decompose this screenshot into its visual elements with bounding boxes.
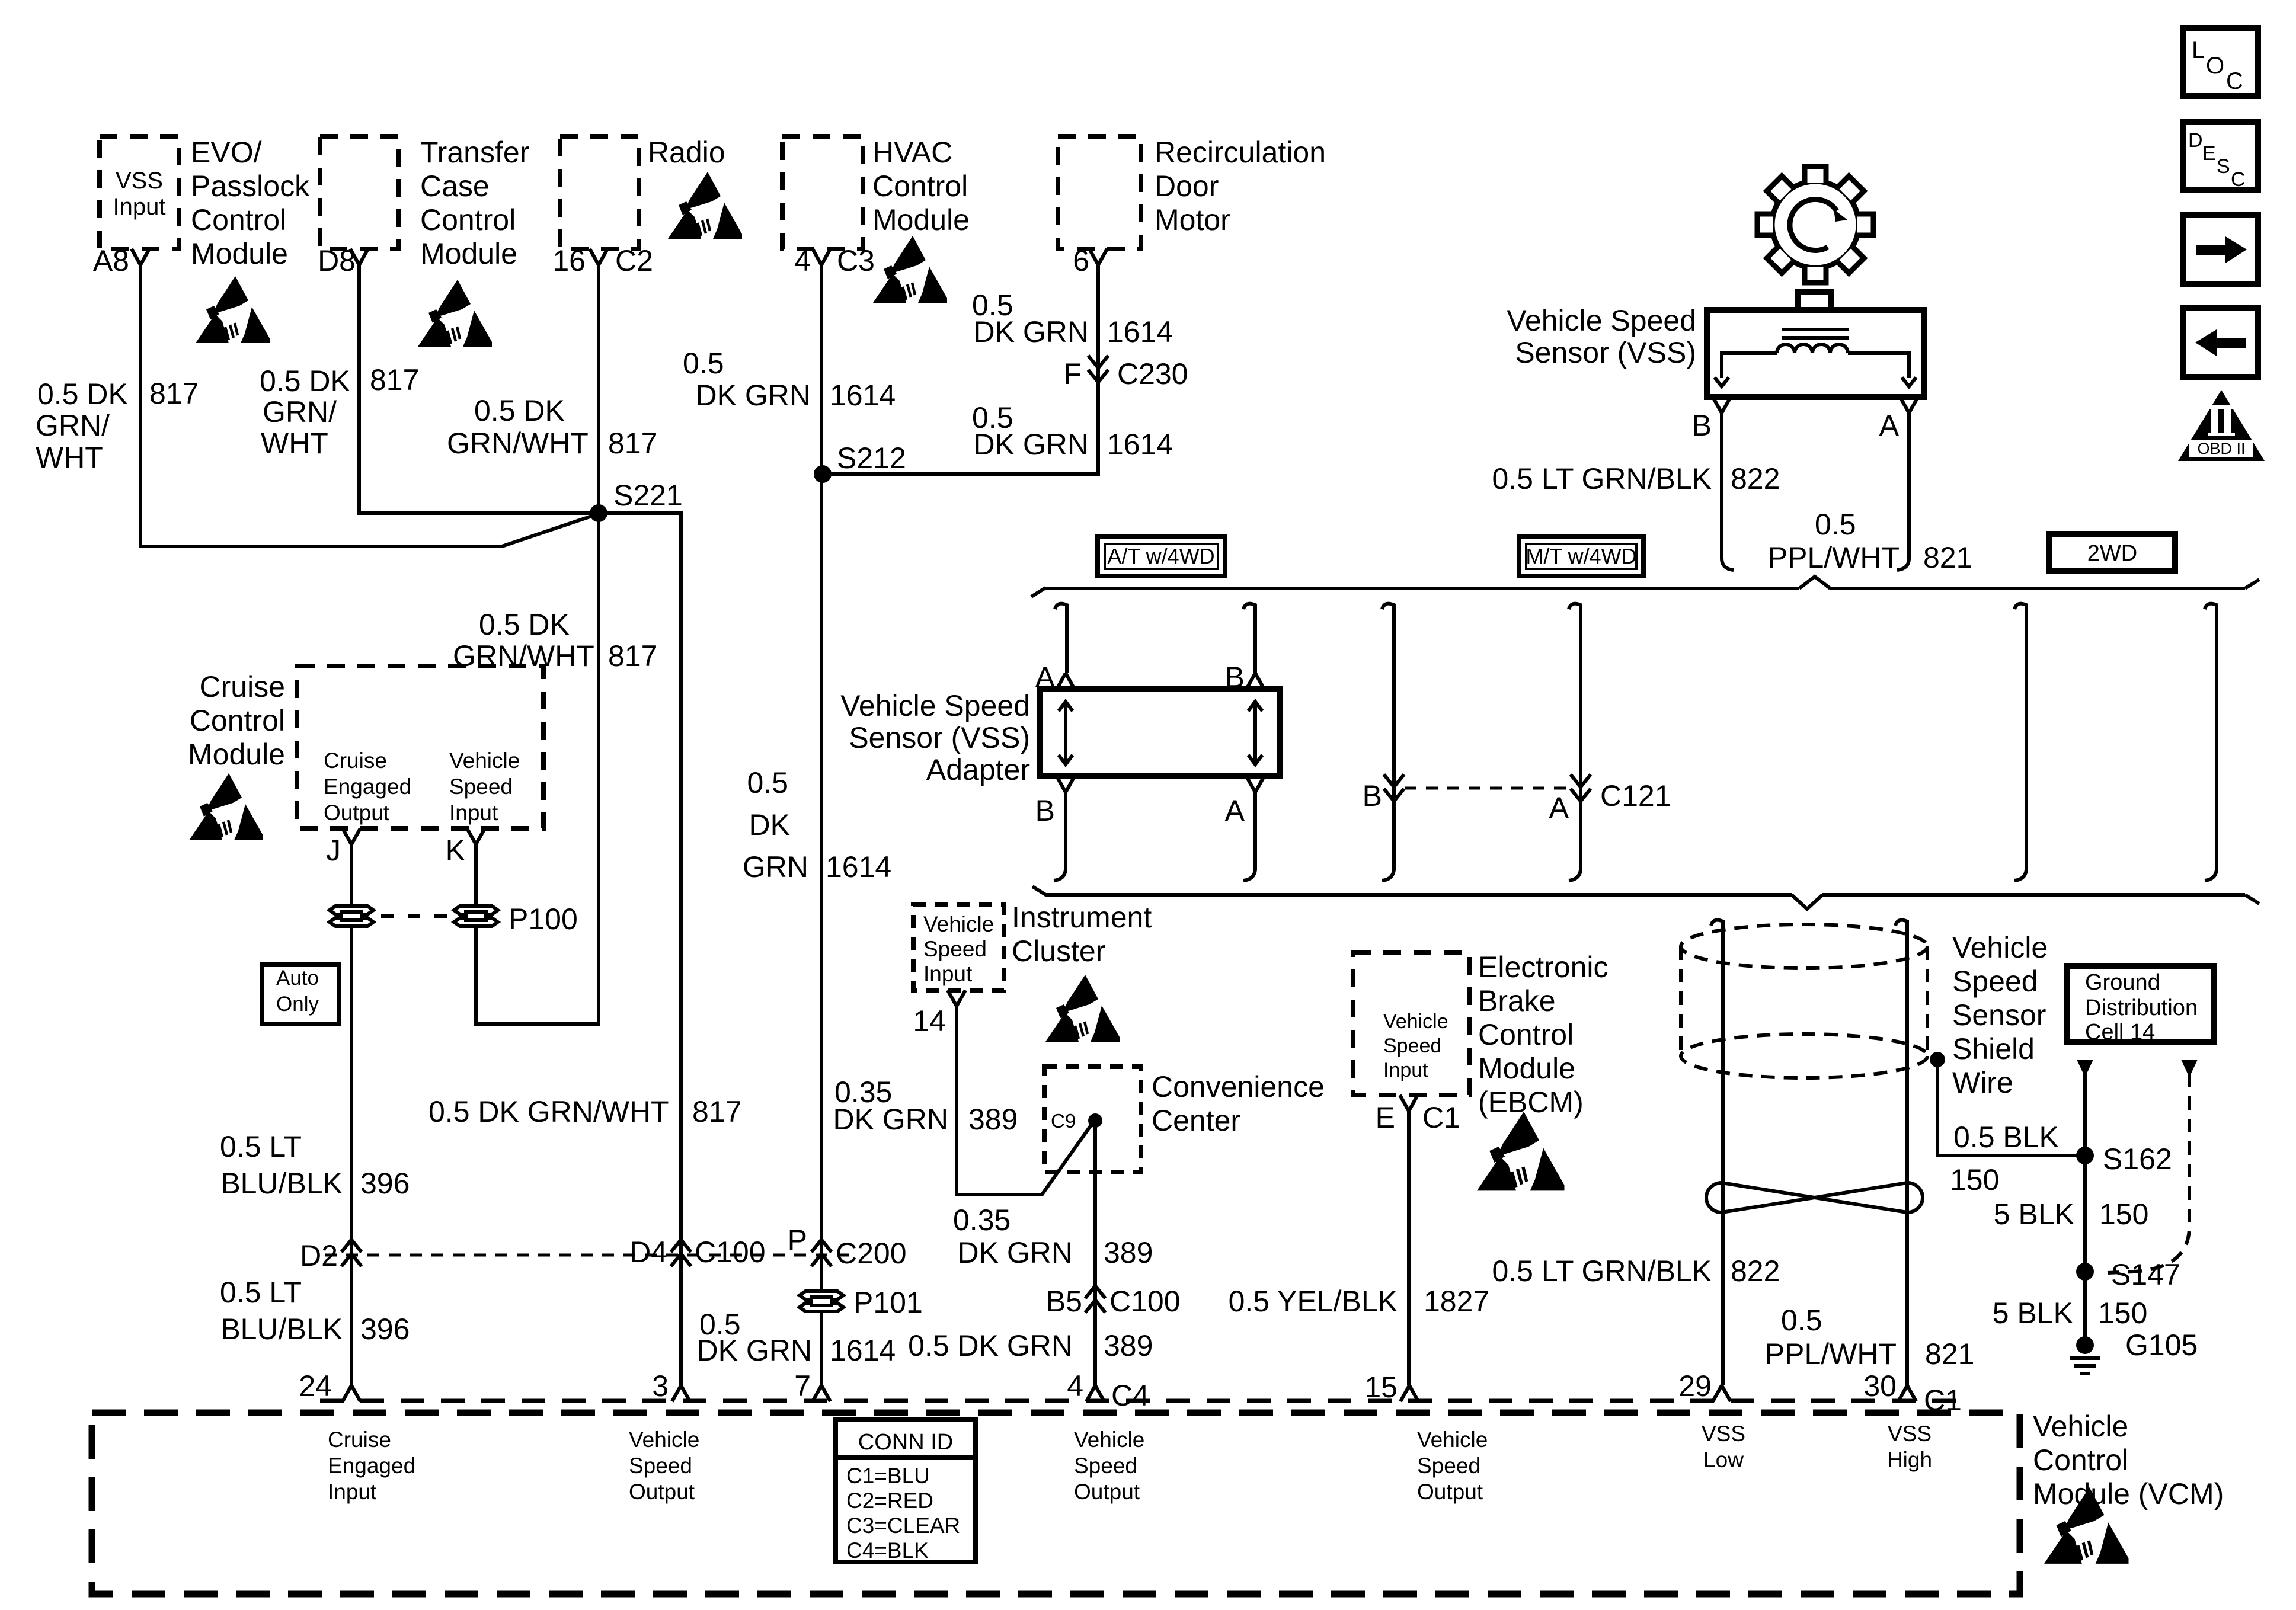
Ground Distribution Cell 14 box bbox=[2067, 966, 2214, 1045]
svg-text:2WD: 2WD bbox=[2087, 541, 2137, 566]
svg-text:GRN/: GRN/ bbox=[263, 395, 337, 428]
svg-text:7: 7 bbox=[794, 1369, 811, 1403]
svg-text:High: High bbox=[1887, 1448, 1932, 1472]
svg-text:DK GRN: DK GRN bbox=[958, 1236, 1073, 1269]
svg-text:Speed: Speed bbox=[1952, 965, 2038, 998]
VCM pin 24 chevron bbox=[343, 1385, 360, 1401]
svg-text:M/T w/4WD: M/T w/4WD bbox=[1526, 544, 1636, 568]
svg-text:Vehicle: Vehicle bbox=[1952, 931, 2048, 964]
svg-text:Ground: Ground bbox=[2085, 970, 2160, 995]
wire recirculation 1614 down to S212 bbox=[823, 265, 1098, 474]
junction S162 bbox=[2076, 1147, 2094, 1164]
svg-text:Radio: Radio bbox=[648, 136, 725, 169]
wire S221 right branch down to VCM pin 3 bbox=[599, 513, 681, 1385]
svg-text:WHT: WHT bbox=[36, 441, 103, 474]
Vehicle Speed Sensor Shield Wire label bbox=[1952, 931, 2048, 1099]
svg-text:G105: G105 bbox=[2125, 1329, 2198, 1362]
Vehicle Control Module (VCM) label bbox=[2033, 1410, 2224, 1510]
wire label 0.5 DK GRN 1614 (HVAC mid) bbox=[743, 766, 891, 884]
svg-text:B: B bbox=[1363, 779, 1382, 812]
twisted pair symbol bbox=[1706, 1183, 1923, 1212]
LOC icon box bbox=[2183, 28, 2258, 96]
svg-text:Engaged: Engaged bbox=[324, 774, 411, 799]
junction S221 bbox=[590, 504, 607, 522]
svg-text:0.5: 0.5 bbox=[747, 766, 788, 799]
option stub A/T right bbox=[1243, 604, 1255, 673]
junction S147 bbox=[2076, 1263, 2094, 1281]
svg-text:S: S bbox=[2217, 155, 2230, 178]
wire ground 150 down through S162 S147 to G105 bbox=[2083, 1074, 2087, 1345]
svg-text:0.5 LT GRN/BLK: 0.5 LT GRN/BLK bbox=[1492, 462, 1712, 495]
svg-text:Cruise: Cruise bbox=[324, 748, 387, 773]
ESD symbol HVAC bbox=[873, 236, 947, 303]
EVO/Passlock Control Module label bbox=[191, 136, 310, 270]
svg-text:Cruise: Cruise bbox=[200, 670, 285, 703]
wire label 0.5 DK GRN/WHT 817 (below S221) bbox=[453, 608, 657, 673]
VSS Input label inside EVO box bbox=[113, 168, 166, 220]
bottom bus right hook bbox=[2245, 895, 2259, 904]
top bus caret bbox=[1799, 577, 1830, 588]
VSS Low label bbox=[1702, 1422, 1745, 1472]
svg-text:DK GRN: DK GRN bbox=[696, 379, 811, 412]
svg-text:Motor: Motor bbox=[1155, 203, 1230, 236]
svg-text:EVO/: EVO/ bbox=[191, 136, 262, 169]
Auto Only box bbox=[262, 965, 339, 1024]
wire C9 down to VCM pin 4 bbox=[1093, 1121, 1097, 1385]
top bus left hook bbox=[1031, 588, 1045, 597]
reluctor gear symbol bbox=[1757, 167, 1873, 283]
svg-text:Vehicle: Vehicle bbox=[1074, 1427, 1144, 1452]
Cruise Engaged Input label bbox=[328, 1427, 415, 1504]
wire EBCM 1827 down to VCM pin 15 bbox=[1407, 1111, 1411, 1385]
svg-text:821: 821 bbox=[1923, 541, 1972, 574]
svg-text:B5: B5 bbox=[1046, 1285, 1082, 1318]
M/T w/4WD tag box bbox=[1519, 537, 1643, 576]
wire label 0.5 DK GRN/WHT 817 (radio to S221) bbox=[447, 394, 657, 460]
svg-text:VSS: VSS bbox=[1702, 1422, 1745, 1446]
svg-text:817: 817 bbox=[370, 363, 419, 396]
svg-text:1827: 1827 bbox=[1424, 1285, 1489, 1318]
wire label 0.5 PPL/WHT 821 (lower) bbox=[1765, 1304, 1975, 1371]
svg-text:C230: C230 bbox=[1117, 357, 1188, 391]
svg-text:Output: Output bbox=[1417, 1480, 1483, 1504]
VSS pickup coil bbox=[1777, 344, 1848, 353]
wire label 0.5 DK GRN 389 bbox=[908, 1329, 1153, 1362]
Cruise Engaged Output label bbox=[324, 748, 411, 825]
svg-text:Cluster: Cluster bbox=[1012, 934, 1105, 968]
VSS core bars bbox=[1782, 329, 1849, 338]
Electronic Brake Control Module (EBCM) label bbox=[1478, 950, 1609, 1119]
svg-text:Control: Control bbox=[191, 203, 286, 236]
ground distribution arrowhead solid bbox=[2077, 1060, 2093, 1077]
svg-text:Vehicle: Vehicle bbox=[449, 748, 520, 773]
svg-text:Vehicle: Vehicle bbox=[1383, 1010, 1448, 1033]
svg-text:150: 150 bbox=[2098, 1297, 2147, 1330]
svg-text:DK GRN: DK GRN bbox=[833, 1103, 948, 1136]
svg-text:Speed: Speed bbox=[449, 774, 513, 799]
svg-text:F: F bbox=[1063, 357, 1082, 391]
svg-text:Output: Output bbox=[629, 1480, 695, 1504]
svg-text:DK GRN: DK GRN bbox=[697, 1334, 812, 1367]
pin K fork bbox=[467, 828, 485, 844]
top option bus bbox=[1044, 587, 2245, 590]
svg-text:GRN/: GRN/ bbox=[36, 409, 110, 442]
svg-text:0.5 DK: 0.5 DK bbox=[260, 364, 350, 398]
C9 junction dot bbox=[1088, 1113, 1102, 1128]
A/T w/4WD tag box bbox=[1098, 537, 1225, 576]
VCM pin 15 chevron bbox=[1400, 1385, 1418, 1401]
svg-text:C3: C3 bbox=[837, 244, 875, 277]
svg-text:PPL/WHT: PPL/WHT bbox=[1768, 541, 1900, 574]
ground G105 bbox=[2070, 1336, 2100, 1374]
svg-text:E: E bbox=[1376, 1101, 1395, 1134]
CONN ID table bbox=[836, 1420, 976, 1563]
option stub M/T right bbox=[1569, 604, 1581, 881]
svg-text:24: 24 bbox=[299, 1369, 332, 1403]
wire label 0.5 LT GRN/BLK 822 (lower) bbox=[1492, 1254, 1780, 1288]
pin 4/C3 fork bbox=[813, 249, 830, 265]
wire label 0.5 LT GRN/BLK 822 bbox=[1492, 462, 1780, 495]
adapter internal arrow B bbox=[1253, 703, 1257, 763]
svg-text:VSS: VSS bbox=[1888, 1422, 1932, 1446]
DESC icon box bbox=[2183, 122, 2258, 191]
svg-text:Vehicle: Vehicle bbox=[923, 912, 994, 936]
svg-text:Input: Input bbox=[328, 1480, 377, 1504]
svg-text:C4=BLK: C4=BLK bbox=[846, 1538, 929, 1563]
svg-text:Control: Control bbox=[1478, 1018, 1574, 1051]
pass-through P100 K bbox=[454, 906, 498, 926]
svg-text:P: P bbox=[788, 1224, 807, 1257]
svg-text:C2=RED: C2=RED bbox=[846, 1489, 933, 1513]
svg-text:CONN ID: CONN ID bbox=[858, 1430, 953, 1455]
shield right side bbox=[1926, 946, 1929, 1056]
svg-text:396: 396 bbox=[360, 1167, 410, 1200]
dashed ground branch to S147 bbox=[2108, 1074, 2189, 1273]
wire label 0.5 DK GRN 1614 (recirc above C230) bbox=[972, 289, 1173, 348]
shield drain junction dot bbox=[1930, 1052, 1945, 1067]
svg-text:Control: Control bbox=[190, 704, 285, 737]
svg-text:S212: S212 bbox=[837, 441, 906, 475]
OBD II icon bbox=[2178, 390, 2265, 461]
svg-text:0.5 DK GRN/WHT: 0.5 DK GRN/WHT bbox=[428, 1095, 669, 1128]
svg-text:Engaged: Engaged bbox=[328, 1454, 415, 1478]
Vehicle Speed Output label (pin 3) bbox=[629, 1427, 699, 1504]
pin 14 fork bbox=[948, 990, 965, 1006]
svg-text:Vehicle Speed: Vehicle Speed bbox=[840, 689, 1030, 722]
shield top ellipse bbox=[1681, 924, 1927, 968]
VCM pin 3 chevron bbox=[672, 1385, 690, 1401]
P100 mating dashed line bbox=[381, 914, 447, 918]
wire adapter B down to bottom bus bbox=[1054, 792, 1066, 881]
wire VSS A 821 down to bus bbox=[1897, 413, 1909, 570]
svg-text:L: L bbox=[2192, 37, 2205, 63]
VSS High label bbox=[1887, 1422, 1932, 1472]
svg-text:1614: 1614 bbox=[830, 1334, 896, 1367]
svg-text:817: 817 bbox=[608, 639, 657, 673]
svg-text:Module: Module bbox=[420, 237, 517, 270]
svg-text:Output: Output bbox=[324, 801, 390, 825]
svg-text:Transfer: Transfer bbox=[420, 136, 529, 169]
svg-text:Sensor: Sensor bbox=[1952, 998, 2046, 1032]
Vehicle Speed Output label (pin 4) bbox=[1074, 1427, 1144, 1504]
svg-text:Passlock: Passlock bbox=[191, 169, 310, 203]
svg-text:Case: Case bbox=[420, 169, 490, 203]
wire label 0.5 LT BLU/BLK 396 (upper) bbox=[220, 1130, 410, 1200]
svg-text:817: 817 bbox=[149, 377, 199, 410]
pin D8 fork bbox=[350, 249, 368, 265]
Vehicle Speed Input label bbox=[449, 748, 520, 825]
Transfer Case Control Module box bbox=[320, 136, 398, 249]
svg-text:C100: C100 bbox=[695, 1235, 766, 1269]
svg-text:0.5 LT GRN/BLK: 0.5 LT GRN/BLK bbox=[1492, 1254, 1712, 1288]
wire J down to VCM pin 24 bbox=[350, 844, 353, 1385]
bottom bus caret bbox=[1792, 895, 1822, 909]
Instrument Cluster label bbox=[1012, 901, 1152, 968]
svg-text:150: 150 bbox=[1950, 1163, 1999, 1196]
option stub M/T left bbox=[1382, 604, 1394, 881]
svg-text:0.5: 0.5 bbox=[1815, 508, 1856, 541]
svg-text:Control: Control bbox=[420, 203, 516, 236]
svg-text:Speed: Speed bbox=[1383, 1035, 1441, 1057]
svg-text:Output: Output bbox=[1074, 1480, 1140, 1504]
EVO/Passlock Control Module box bbox=[100, 136, 179, 249]
VCM connector dashed pin line bbox=[320, 1399, 1968, 1403]
svg-text:(EBCM): (EBCM) bbox=[1478, 1086, 1584, 1119]
wire radio C2 817 down through S221 to cruise K branch bbox=[476, 265, 599, 1024]
svg-text:6: 6 bbox=[1073, 244, 1089, 277]
pin 6 fork bbox=[1089, 249, 1107, 265]
svg-text:5 BLK: 5 BLK bbox=[1994, 1198, 2074, 1231]
option stub 2WD right bbox=[2205, 604, 2217, 881]
wire label 0.5 YEL/BLK 1827 bbox=[1229, 1285, 1490, 1318]
wire label 0.5 BLK 150 bbox=[1950, 1121, 2059, 1196]
connector C121 chevron B bbox=[1384, 774, 1404, 801]
svg-text:O: O bbox=[2206, 53, 2224, 79]
svg-text:822: 822 bbox=[1731, 1254, 1780, 1288]
svg-text:K: K bbox=[446, 834, 465, 867]
svg-text:Electronic: Electronic bbox=[1478, 950, 1609, 984]
svg-text:J: J bbox=[326, 834, 341, 867]
svg-text:0.5: 0.5 bbox=[683, 347, 724, 380]
svg-text:Recirculation: Recirculation bbox=[1155, 136, 1326, 169]
pin 16/C2 fork bbox=[590, 249, 607, 265]
svg-text:0.5 BLK: 0.5 BLK bbox=[1953, 1121, 2059, 1154]
option stub 2WD left bbox=[2014, 604, 2026, 881]
ESD symbol Cruise bbox=[189, 773, 263, 840]
svg-text:396: 396 bbox=[360, 1313, 410, 1346]
svg-text:Input: Input bbox=[113, 194, 166, 220]
Vehicle Speed Input label (EBCM) bbox=[1383, 1010, 1448, 1081]
svg-text:VSS: VSS bbox=[116, 168, 163, 194]
svg-text:389: 389 bbox=[968, 1103, 1018, 1136]
svg-text:B: B bbox=[1692, 409, 1712, 442]
svg-text:Module: Module bbox=[872, 203, 970, 236]
svg-text:Module: Module bbox=[1478, 1052, 1575, 1085]
wire label 0.35 DK GRN 389 (cluster) bbox=[833, 1076, 1018, 1136]
pin A8 fork bbox=[132, 249, 149, 265]
wire adapter A down to bottom bus bbox=[1243, 792, 1255, 881]
wire label 5 BLK 150 (upper) bbox=[1994, 1198, 2149, 1231]
svg-text:0.5 YEL/BLK: 0.5 YEL/BLK bbox=[1229, 1285, 1398, 1318]
option stub A/T left bbox=[1055, 604, 1067, 673]
VCM pin 30 fork bbox=[1898, 1385, 1916, 1401]
svg-text:DK GRN: DK GRN bbox=[974, 315, 1089, 348]
wire label 5 BLK 150 (lower) bbox=[1993, 1297, 2148, 1330]
svg-text:Distribution: Distribution bbox=[2085, 996, 2198, 1020]
svg-text:150: 150 bbox=[2099, 1198, 2148, 1231]
junction S212 bbox=[814, 465, 832, 483]
svg-text:S221: S221 bbox=[613, 479, 683, 512]
VCM pin 29 chevron bbox=[1713, 1385, 1731, 1401]
wire label 0.35 DK GRN 389 (below C9) bbox=[953, 1204, 1153, 1269]
svg-text:Module (VCM): Module (VCM) bbox=[2033, 1477, 2224, 1510]
svg-text:817: 817 bbox=[608, 427, 657, 460]
svg-text:Speed: Speed bbox=[1417, 1454, 1480, 1478]
Radio box bbox=[560, 136, 639, 249]
ESD symbol EBCM bbox=[1477, 1112, 1565, 1190]
right arrow icon box bbox=[2183, 215, 2258, 284]
svg-text:BLU/BLK: BLU/BLK bbox=[220, 1313, 343, 1346]
VSS sensor box bbox=[1707, 310, 1924, 397]
svg-text:Vehicle: Vehicle bbox=[1417, 1427, 1488, 1452]
ground distribution arrowhead dashed branch bbox=[2181, 1060, 2198, 1077]
wire A8 817 down and right to S221 bbox=[140, 265, 597, 546]
svg-text:Low: Low bbox=[1703, 1448, 1744, 1472]
svg-text:Input: Input bbox=[1383, 1059, 1428, 1081]
svg-text:C9: C9 bbox=[1051, 1110, 1076, 1132]
left arrow icon box bbox=[2183, 308, 2258, 377]
svg-text:Door: Door bbox=[1155, 169, 1219, 203]
svg-text:Vehicle Speed: Vehicle Speed bbox=[1507, 304, 1696, 337]
Vehicle Speed Sensor (VSS) label bbox=[1507, 304, 1696, 369]
svg-text:Cell 14: Cell 14 bbox=[2085, 1020, 2155, 1045]
wire label 0.5 DK GRN 1614 (HVAC upper) bbox=[683, 347, 896, 412]
pin A fork bbox=[1900, 397, 1918, 413]
adapter internal arrow A bbox=[1064, 703, 1067, 763]
wire VSS low from bottom bus bbox=[1711, 920, 1723, 1385]
svg-text:Cruise: Cruise bbox=[328, 1427, 391, 1452]
connector C230 chevron bbox=[1088, 356, 1108, 382]
Transfer Case Control Module label bbox=[420, 136, 529, 270]
svg-text:A: A bbox=[1225, 794, 1245, 827]
svg-text:WHT: WHT bbox=[261, 427, 328, 460]
ESD symbol EVO bbox=[196, 276, 270, 343]
svg-text:Input: Input bbox=[449, 801, 498, 825]
svg-text:C100: C100 bbox=[1109, 1285, 1181, 1318]
svg-text:S162: S162 bbox=[2103, 1142, 2172, 1176]
HVAC Control Module label bbox=[872, 136, 970, 236]
svg-text:D4: D4 bbox=[629, 1235, 667, 1269]
svg-text:Auto: Auto bbox=[276, 966, 319, 990]
svg-text:389: 389 bbox=[1104, 1329, 1153, 1362]
svg-text:822: 822 bbox=[1731, 462, 1780, 495]
shield bottom ellipse bbox=[1681, 1034, 1927, 1078]
svg-text:Vehicle: Vehicle bbox=[629, 1427, 699, 1452]
ESD symbol VCM bbox=[2044, 1487, 2129, 1564]
svg-text:30: 30 bbox=[1863, 1369, 1897, 1403]
wire VSS B 822 down to bus bbox=[1722, 413, 1734, 570]
svg-text:Instrument: Instrument bbox=[1012, 901, 1152, 934]
svg-text:Wire: Wire bbox=[1952, 1066, 2013, 1099]
Vehicle Speed Output label (pin 15) bbox=[1417, 1427, 1488, 1504]
C100 mating dashed line bbox=[325, 1254, 853, 1257]
Vehicle Speed Sensor Adapter box bbox=[1040, 689, 1280, 776]
svg-text:C4: C4 bbox=[1111, 1379, 1149, 1412]
svg-text:C1: C1 bbox=[1422, 1101, 1460, 1134]
svg-text:Module: Module bbox=[191, 237, 288, 270]
svg-text:PPL/WHT: PPL/WHT bbox=[1765, 1337, 1897, 1371]
connector C100 chevron B5 bbox=[1085, 1286, 1105, 1313]
svg-text:C: C bbox=[2226, 68, 2243, 94]
svg-text:BLU/BLK: BLU/BLK bbox=[220, 1167, 343, 1200]
VCM pin 7 chevron bbox=[813, 1385, 830, 1401]
wire HVAC C3 1614 down to VCM pin 7 bbox=[820, 265, 823, 1385]
svg-text:4: 4 bbox=[1067, 1369, 1083, 1403]
pass-through P101 bbox=[800, 1291, 843, 1311]
svg-text:Module: Module bbox=[188, 738, 285, 771]
wire VSS high from bottom bus bbox=[1895, 920, 1907, 1385]
svg-text:P100: P100 bbox=[509, 902, 578, 936]
svg-text:14: 14 bbox=[913, 1004, 946, 1038]
svg-text:Speed: Speed bbox=[923, 937, 987, 961]
Recirculation Door Motor label bbox=[1155, 136, 1326, 236]
Cruise Control Module label bbox=[188, 670, 285, 771]
pass-through P100 J bbox=[330, 906, 373, 926]
svg-text:16: 16 bbox=[552, 244, 586, 277]
VCM pin 4 chevron bbox=[1086, 1385, 1104, 1401]
svg-text:0.5: 0.5 bbox=[1781, 1304, 1822, 1337]
adapter lower pin B fork bbox=[1057, 776, 1075, 792]
svg-text:Center: Center bbox=[1152, 1104, 1240, 1137]
svg-text:A/T w/4WD: A/T w/4WD bbox=[1107, 544, 1214, 568]
wire label 0.5 DK GRN 1614 (recirc below C230) bbox=[972, 401, 1173, 461]
connector C121 chevron A bbox=[1571, 774, 1591, 801]
VSS sensor mount nub bbox=[1798, 292, 1831, 310]
svg-text:Brake: Brake bbox=[1478, 984, 1556, 1017]
svg-text:Only: Only bbox=[276, 993, 319, 1016]
ESD symbol Transfer Case bbox=[418, 280, 492, 347]
svg-text:GRN/WHT: GRN/WHT bbox=[447, 427, 589, 460]
svg-text:4: 4 bbox=[794, 244, 811, 277]
svg-text:C1=BLU: C1=BLU bbox=[846, 1464, 930, 1488]
svg-text:0.35: 0.35 bbox=[953, 1204, 1011, 1237]
svg-text:A: A bbox=[1549, 791, 1569, 824]
svg-text:389: 389 bbox=[1104, 1236, 1153, 1269]
svg-text:29: 29 bbox=[1678, 1369, 1712, 1403]
svg-text:1614: 1614 bbox=[1107, 428, 1173, 461]
svg-text:DK: DK bbox=[749, 808, 790, 841]
svg-text:OBD II: OBD II bbox=[2197, 440, 2245, 457]
svg-text:DK GRN: DK GRN bbox=[974, 428, 1089, 461]
fork into adapter pin B bbox=[1246, 673, 1264, 689]
svg-text:0.5 LT: 0.5 LT bbox=[220, 1130, 302, 1163]
shield left side bbox=[1679, 946, 1683, 1056]
svg-text:HVAC: HVAC bbox=[872, 136, 952, 169]
svg-text:C: C bbox=[2231, 168, 2246, 191]
svg-text:0.5 DK: 0.5 DK bbox=[474, 394, 565, 427]
svg-text:B: B bbox=[1035, 794, 1055, 827]
svg-text:0.5 DK GRN: 0.5 DK GRN bbox=[908, 1329, 1073, 1362]
svg-text:821: 821 bbox=[1925, 1337, 1974, 1371]
connector C100 chevron D4 bbox=[671, 1240, 691, 1266]
svg-text:C121: C121 bbox=[1600, 779, 1671, 812]
pin B fork bbox=[1713, 397, 1731, 413]
svg-text:Speed: Speed bbox=[629, 1454, 692, 1478]
2WD tag box bbox=[2049, 534, 2175, 571]
Vehicle Speed Sensor (VSS) Adapter label bbox=[840, 689, 1030, 786]
Instrument Cluster vehicle speed input box bbox=[913, 905, 1004, 990]
svg-text:D: D bbox=[2188, 129, 2203, 152]
